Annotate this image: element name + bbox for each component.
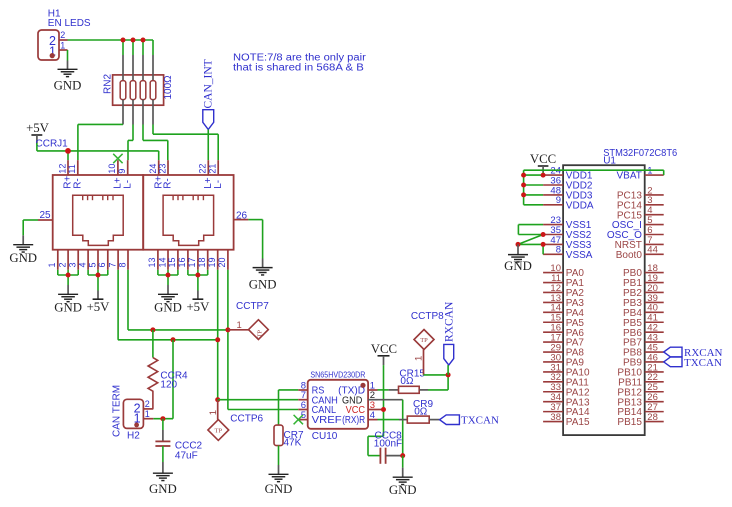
svg-text:23: 23 (157, 164, 167, 174)
svg-text:CCTP8: CCTP8 (411, 311, 444, 322)
resistor CCR4 120 (148, 330, 188, 409)
wire CCC2 to GND (162, 446, 164, 462)
junction CCC8/GND (400, 453, 405, 458)
svg-text:18: 18 (197, 257, 207, 267)
net label TXCAN (440, 415, 499, 427)
wire VSS bridge (518, 224, 543, 226)
svg-text:VSSA: VSSA (566, 250, 593, 261)
svg-text:8: 8 (556, 245, 561, 256)
wire pin25 to GND (23, 219, 38, 221)
svg-text:9: 9 (117, 169, 127, 174)
svg-text:47uF: 47uF (175, 450, 198, 461)
svg-text:44: 44 (647, 245, 658, 256)
ground GND (under H1) (54, 61, 82, 93)
svg-text:5: 5 (87, 262, 97, 267)
ground GND (CCC2) (149, 462, 177, 496)
svg-text:1: 1 (208, 410, 219, 415)
wire CAN_INT to pin22 (207, 130, 209, 161)
microcontroller U1 STM32F072C8T6 (543, 148, 678, 435)
svg-text:GND: GND (504, 259, 532, 273)
junction pins1-3 (66, 273, 71, 278)
resistor CR15 0Ω (378, 368, 429, 393)
svg-text:GND: GND (265, 482, 293, 496)
junction pins13-15 (166, 273, 171, 278)
svg-text:100Ω: 100Ω (163, 75, 174, 100)
ground GND (conn2) (154, 285, 182, 315)
svg-text:VCC: VCC (530, 152, 556, 166)
svg-text:15: 15 (167, 257, 177, 267)
svg-text:RXCAN: RXCAN (443, 301, 455, 342)
svg-text:2: 2 (145, 399, 150, 409)
wire pin19 down (217, 270, 219, 400)
wire CR15 to RXCAN node (428, 389, 448, 391)
wire RN2.b to pin9 (132, 125, 134, 141)
connector CCRJ1 jack A (38, 160, 143, 270)
svg-text:CU10: CU10 (312, 431, 338, 442)
wire CCTP8 to node (424, 374, 449, 376)
svg-text:VDDA: VDDA (566, 200, 594, 211)
svg-text:CAN_INT: CAN_INT (202, 59, 214, 108)
svg-text:7: 7 (107, 262, 117, 267)
svg-text:TP: TP (420, 337, 428, 344)
svg-text:0Ω: 0Ω (414, 406, 428, 417)
net label CAN_INT (202, 59, 214, 129)
test point CCTP8 (411, 311, 444, 375)
power +5V (conn2) (186, 291, 210, 314)
svg-text:PA15: PA15 (566, 417, 590, 428)
svg-text:VBAT: VBAT (617, 171, 642, 182)
junction VSS dots (541, 232, 546, 237)
wire CANL to U.6 (228, 409, 298, 411)
wire +5V rail to pin24 (36, 143, 38, 151)
svg-text:8: 8 (117, 262, 127, 267)
svg-text:GND: GND (149, 482, 177, 496)
ground GND (CCC8) (389, 468, 417, 497)
svg-text:12: 12 (57, 164, 67, 174)
svg-text:R-: R- (163, 178, 174, 189)
wire U.2 GND down (378, 399, 403, 401)
svg-text:CCTP7: CCTP7 (236, 301, 269, 312)
junction RXCAN node (446, 372, 451, 377)
svg-text:9: 9 (556, 195, 561, 206)
wire pins13-15 bridge (157, 270, 159, 275)
wire pin7 down (117, 270, 119, 340)
connector CCRJ1 jack B (143, 160, 248, 270)
net label RXCAN (vertical) (443, 301, 455, 375)
svg-text:GND: GND (9, 251, 37, 265)
junction pin19 node (215, 337, 220, 342)
junction CCC2 tap (160, 416, 165, 421)
test point CCTP7 (228, 301, 269, 340)
svg-text:21: 21 (208, 164, 218, 174)
junction EN/RN2 dots (121, 38, 126, 43)
power +5V (top left) (26, 121, 50, 143)
wire pin20 down (227, 270, 229, 410)
svg-text:19: 19 (207, 257, 217, 267)
net label RXCAN (PB8) (664, 347, 723, 359)
svg-text:17: 17 (187, 257, 197, 267)
svg-text:16: 16 (177, 257, 187, 267)
svg-text:(RX)R: (RX)R (342, 415, 365, 426)
svg-text:H2: H2 (127, 431, 140, 442)
svg-text:3: 3 (68, 262, 78, 267)
svg-text:EN LEDS: EN LEDS (48, 18, 91, 29)
junction pin20 node (225, 327, 230, 332)
net label TXCAN (PB9) (664, 357, 722, 369)
resistor CR7 47K (274, 425, 304, 448)
svg-text:that is shared in 568A & B: that is shared in 568A & B (233, 63, 364, 74)
svg-text:10: 10 (107, 164, 117, 174)
power +5V (conn1) (87, 291, 111, 314)
no-connect pin10 (113, 154, 122, 163)
wire VCC rail STM32 (542, 172, 544, 175)
svg-text:28: 28 (647, 412, 658, 423)
svg-text:+5V: +5V (186, 300, 210, 314)
junction VCC/U.3 (381, 407, 386, 412)
svg-text:13: 13 (147, 257, 157, 267)
svg-text:VREF: VREF (312, 415, 342, 426)
svg-text:6: 6 (97, 262, 107, 267)
svg-text:L-: L- (213, 180, 224, 189)
svg-text:RN2: RN2 (103, 74, 114, 94)
wire H1.1 to GND (67, 50, 69, 61)
svg-text:20: 20 (217, 257, 227, 267)
wire VBAT loop (524, 169, 664, 171)
svg-text:2: 2 (57, 262, 67, 267)
svg-text:1: 1 (47, 262, 57, 267)
svg-text:VCC: VCC (371, 342, 397, 356)
svg-text:11: 11 (67, 164, 77, 173)
svg-text:TXCAN: TXCAN (684, 357, 722, 369)
test point CCTP6 (208, 400, 264, 441)
connector H1 (EN LEDS header) (38, 9, 91, 61)
ground GND (STM32) (504, 244, 532, 272)
wire EN net H1.2 to RN2 (68, 39, 154, 41)
wire CR7 to GND (278, 446, 280, 465)
svg-text:1: 1 (145, 409, 150, 419)
junction CCR4 top (150, 327, 155, 332)
wire RN2.c to pin23 (142, 125, 144, 141)
svg-text:38: 38 (550, 412, 561, 423)
wire pin8/pin20 horizontal (128, 329, 228, 331)
wire to GND (U.2) (402, 456, 404, 468)
wire CANH to U.7 (218, 399, 299, 401)
svg-text:TP: TP (215, 428, 223, 435)
junction node A (171, 337, 176, 342)
svg-text:GND: GND (389, 483, 417, 497)
no-connect VREF (294, 415, 303, 424)
ground GND (pin25) (9, 235, 37, 264)
svg-text:CAN TERM: CAN TERM (112, 385, 123, 437)
svg-text:PB15: PB15 (617, 417, 642, 428)
svg-text:GND: GND (54, 79, 82, 93)
svg-text:26: 26 (236, 210, 248, 221)
svg-text:4: 4 (77, 262, 87, 267)
connector H2 (CAN TERM) (112, 385, 154, 442)
svg-text:2: 2 (60, 30, 65, 40)
svg-text:+5V: +5V (87, 300, 111, 314)
svg-text:14: 14 (157, 257, 167, 267)
wire pin8 down (127, 270, 129, 330)
svg-text:CCTP6: CCTP6 (230, 414, 263, 425)
svg-text:Boot0: Boot0 (616, 250, 643, 261)
svg-text:1: 1 (237, 320, 242, 331)
svg-text:TXCAN: TXCAN (461, 415, 499, 427)
ground GND (conn1) (54, 285, 82, 315)
svg-text:0Ω: 0Ω (400, 376, 414, 387)
resistor network RN2 100Ω (103, 55, 174, 125)
svg-text:L-: L- (122, 180, 133, 189)
wire RN2.d to pin21 (152, 125, 154, 135)
ground GND (CR7) (265, 465, 293, 496)
svg-text:CCRJ1: CCRJ1 (36, 138, 69, 149)
wire RS to CR7 (279, 389, 299, 391)
svg-text:1: 1 (60, 40, 65, 50)
svg-text:47K: 47K (284, 437, 302, 448)
wire VCC rail (383, 365, 385, 436)
power VCC (STM32) (530, 152, 556, 172)
svg-text:22: 22 (198, 164, 208, 174)
svg-text:120: 120 (160, 379, 177, 390)
svg-text:SN65HVD230DR: SN65HVD230DR (310, 370, 365, 379)
wire pin26 to GND (248, 219, 262, 221)
wire pins16-18 bridge (187, 270, 189, 275)
svg-text:100nF: 100nF (374, 439, 402, 450)
wire node A to H2.1 (172, 340, 174, 419)
svg-text:TP: TP (257, 330, 264, 338)
svg-text:+5V: +5V (26, 121, 50, 135)
junction CANH/CCTP6 (215, 397, 220, 402)
power VCC (SN65) (371, 342, 397, 365)
svg-text:1: 1 (414, 356, 425, 361)
junction pins4-6 (96, 273, 101, 278)
wire pins1-3 bridge (57, 270, 59, 275)
op-amp U CU10 SN65HVD230 (298, 370, 383, 442)
ground GND (pin26) (249, 259, 277, 292)
resistor CR9 0Ω (378, 399, 440, 423)
svg-text:25: 25 (40, 210, 52, 221)
svg-text:GND: GND (54, 301, 82, 315)
capacitor CCC2 47uF (155, 419, 202, 462)
wire pins4-6 bridge (87, 270, 89, 275)
svg-text:GND: GND (249, 277, 277, 291)
wire pin7/pin19 horizontal (118, 339, 218, 341)
junction +5V/pin12 (65, 148, 71, 154)
svg-text:R-: R- (72, 178, 83, 189)
junction VDD dots (521, 173, 526, 178)
svg-text:4: 4 (370, 410, 375, 421)
wire RN2.a to pin11 (78, 123, 123, 125)
junction pins16-18 (195, 273, 200, 278)
capacitor CCC8 100nF (374, 430, 403, 464)
svg-text:GND: GND (154, 301, 182, 315)
